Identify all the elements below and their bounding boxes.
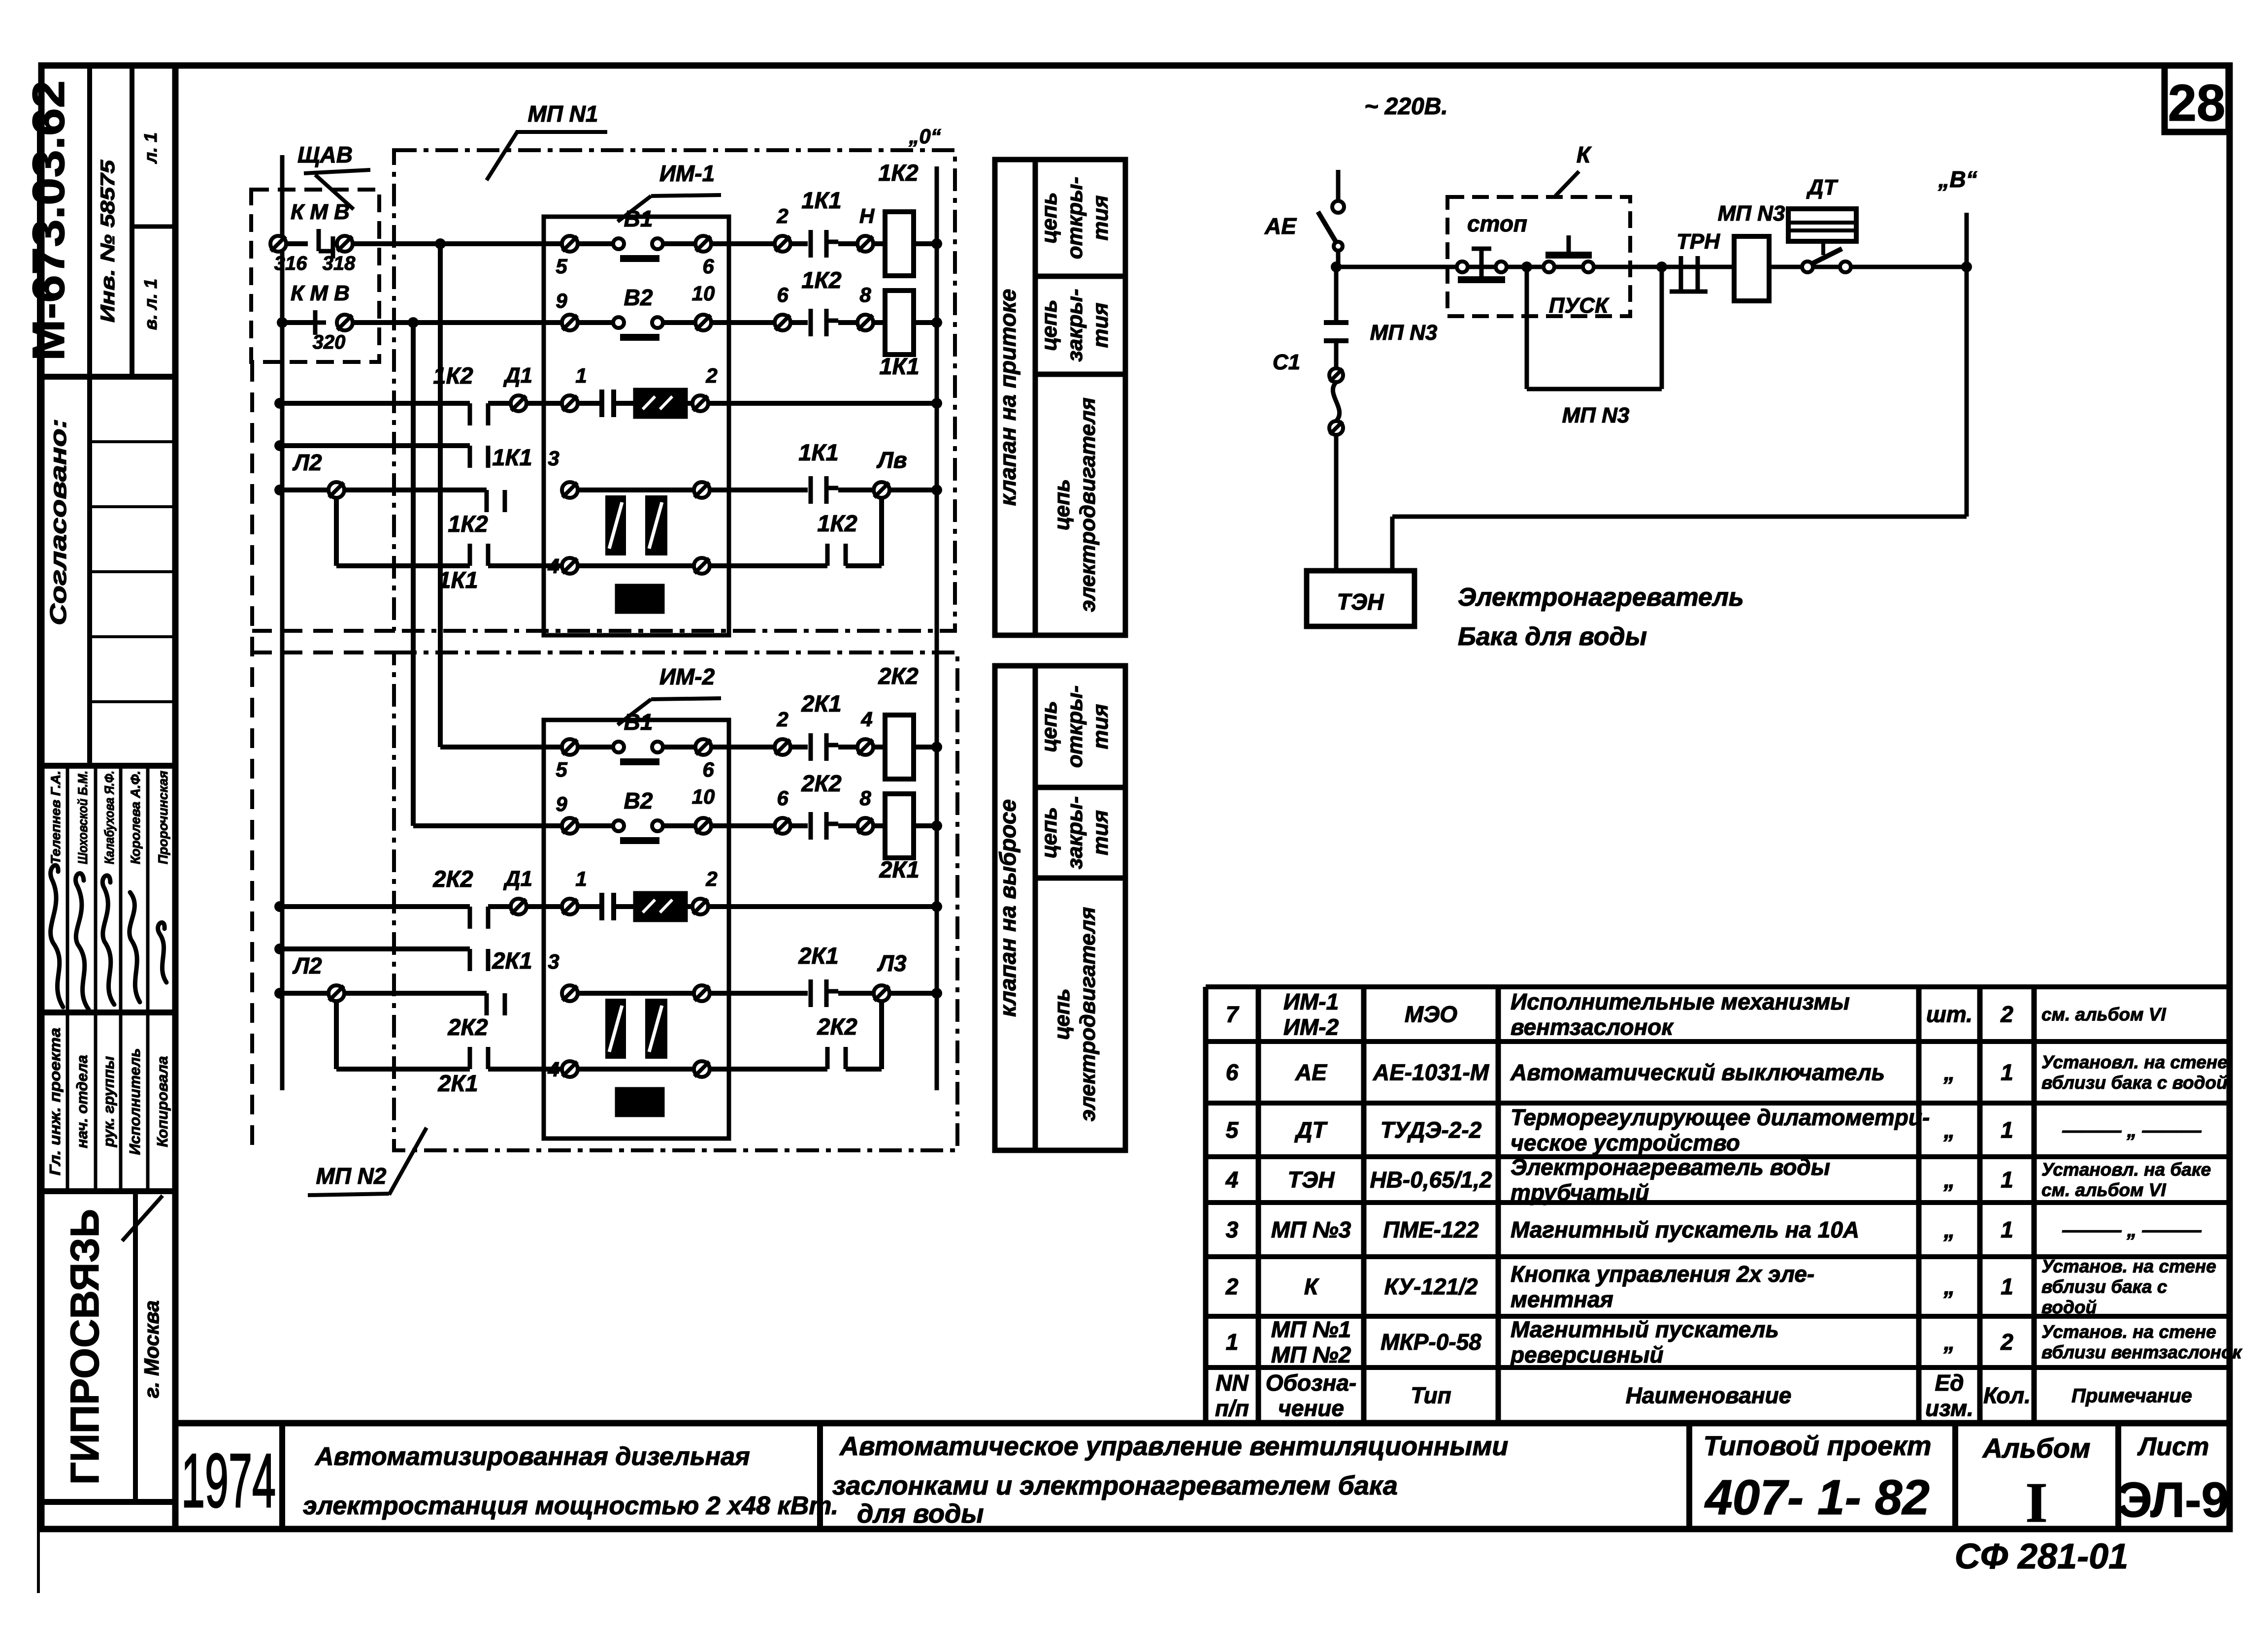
svg-text:6: 6 (702, 255, 714, 278)
svg-text:чение: чение (1278, 1395, 1344, 1421)
svg-text:„: „ (1943, 1274, 1955, 1300)
svg-text:4: 4 (547, 1058, 559, 1081)
svg-text:Установ. на стене: Установ. на стене (2041, 1256, 2216, 1276)
svg-text:МП N3: МП N3 (1370, 321, 1438, 345)
svg-text:1К1: 1К1 (879, 353, 919, 379)
svg-text:Копировала: Копировала (154, 1056, 171, 1147)
svg-text:Лист: Лист (2137, 1433, 2209, 1461)
svg-text:Пророчинская: Пророчинская (156, 771, 170, 864)
svg-text:М-673.03.62: М-673.03.62 (24, 80, 74, 361)
svg-text:МП №3: МП №3 (1271, 1217, 1351, 1242)
svg-text:цепь: цепь (1037, 299, 1061, 351)
svg-text:электродвигателя: электродвигателя (1076, 397, 1100, 612)
svg-text:тия: тия (1088, 302, 1113, 348)
svg-text:откры-: откры- (1063, 177, 1087, 259)
svg-text:10: 10 (692, 282, 715, 305)
svg-text:Альбом: Альбом (1982, 1433, 2091, 1464)
svg-text:Л3: Л3 (877, 950, 907, 976)
svg-text:трубчатый: трубчатый (1511, 1179, 1649, 1205)
svg-text:Ед: Ед (1935, 1370, 1964, 1396)
svg-text:Шоховской Б.М.: Шоховской Б.М. (75, 771, 90, 864)
svg-text:СФ 281-01: СФ 281-01 (1955, 1537, 2128, 1576)
svg-text:Д1: Д1 (503, 363, 532, 388)
svg-text:1К2: 1К2 (448, 511, 488, 537)
svg-text:2К1: 2К1 (798, 943, 838, 969)
svg-text:изм.: изм. (1925, 1395, 1973, 1421)
svg-text:1К1: 1К1 (798, 439, 838, 465)
svg-text:1К2: 1К2 (801, 267, 841, 293)
svg-text:——— „ ———: ——— „ ——— (2062, 1219, 2202, 1241)
svg-text:Установл. на баке: Установл. на баке (2041, 1160, 2211, 1180)
svg-text:2: 2 (705, 364, 717, 387)
svg-text:4: 4 (860, 708, 872, 731)
svg-text:К М В: К М В (291, 200, 350, 224)
svg-text:2К1: 2К1 (879, 856, 919, 882)
svg-text:Магнитный пускатель на 10А: Магнитный пускатель на 10А (1511, 1217, 1859, 1242)
svg-text:шт.: шт. (1926, 1002, 1972, 1027)
svg-text:5: 5 (556, 255, 567, 278)
svg-text:ЭЛ-9: ЭЛ-9 (2117, 1472, 2229, 1528)
svg-text:2К2: 2К2 (447, 1014, 488, 1040)
svg-text:6: 6 (777, 786, 789, 810)
svg-text:откры-: откры- (1063, 685, 1087, 768)
svg-text:электростанция мощностью 2 х4: электростанция мощностью 2 х48 кВт. (303, 1492, 838, 1520)
svg-text:1К2: 1К2 (878, 160, 918, 186)
svg-text:2: 2 (2000, 1002, 2013, 1027)
svg-text:В2: В2 (624, 285, 653, 310)
svg-text:Л2: Л2 (292, 450, 322, 475)
svg-text:407- 1- 82: 407- 1- 82 (1704, 1470, 1930, 1525)
svg-text:цепь: цепь (1050, 988, 1074, 1040)
svg-text:В1: В1 (624, 206, 653, 231)
svg-text:Калабухова Я.Ф.: Калабухова Я.Ф. (102, 771, 117, 864)
svg-text:4: 4 (547, 554, 559, 578)
svg-text:реверсивный: реверсивный (1510, 1342, 1664, 1368)
svg-text:ИМ-1: ИМ-1 (1283, 989, 1339, 1014)
svg-text:2: 2 (776, 708, 788, 731)
svg-text:——— „ ———: ——— „ ——— (2062, 1120, 2202, 1141)
svg-text:3: 3 (548, 950, 559, 973)
svg-text:Наименование: Наименование (1626, 1383, 1792, 1408)
svg-text:1: 1 (2001, 1117, 2013, 1143)
svg-text:Автоматический выключатель: Автоматический выключатель (1510, 1060, 1885, 1085)
svg-text:2К1: 2К1 (801, 690, 841, 716)
svg-text:8: 8 (859, 283, 871, 306)
svg-text:Кол.: Кол. (1983, 1383, 2031, 1408)
svg-text:2К2: 2К2 (817, 1013, 857, 1040)
svg-text:Гл. инж. проекта: Гл. инж. проекта (46, 1028, 64, 1175)
svg-text:1: 1 (575, 867, 587, 890)
svg-text:„: „ (1943, 1217, 1955, 1242)
svg-text:2: 2 (776, 204, 788, 228)
svg-text:вблизи бака с водой: вблизи бака с водой (2041, 1073, 2228, 1093)
svg-text:закры-: закры- (1063, 289, 1087, 361)
svg-text:ТЭН: ТЭН (1288, 1167, 1335, 1193)
svg-text:~ 220В.: ~ 220В. (1364, 94, 1447, 120)
svg-text:6: 6 (1226, 1060, 1239, 1085)
svg-text:Обозна-: Обозна- (1266, 1370, 1357, 1396)
svg-text:NN: NN (1216, 1370, 1249, 1396)
svg-text:АЕ: АЕ (1295, 1060, 1327, 1085)
svg-text:стоп: стоп (1467, 211, 1527, 236)
svg-text:К: К (1577, 142, 1592, 167)
svg-text:„: „ (1943, 1060, 1955, 1085)
svg-text:К: К (1304, 1274, 1319, 1300)
svg-text:МП N1: МП N1 (528, 101, 598, 127)
svg-text:водой: водой (2041, 1297, 2097, 1317)
svg-text:МКР-0-58: МКР-0-58 (1381, 1329, 1481, 1355)
svg-text:1: 1 (2001, 1060, 2013, 1085)
svg-text:МП N3: МП N3 (1562, 403, 1630, 427)
svg-text:Примечание: Примечание (2071, 1385, 2192, 1407)
svg-text:ДТ: ДТ (1294, 1117, 1328, 1143)
svg-text:ГИПРОСВЯЗЬ: ГИПРОСВЯЗЬ (63, 1209, 107, 1485)
svg-text:К М В: К М В (291, 281, 350, 305)
svg-text:нач. отдела: нач. отдела (73, 1055, 91, 1148)
svg-text:г. Москва: г. Москва (140, 1301, 163, 1399)
svg-text:„В“: „В“ (1938, 166, 1977, 192)
svg-text:28: 28 (2168, 74, 2226, 132)
svg-text:Королева А.Ф.: Королева А.Ф. (128, 771, 143, 864)
svg-text:Терморегулирующее дилатометри-: Терморегулирующее дилатометри- (1511, 1105, 1930, 1130)
svg-text:4: 4 (1225, 1167, 1239, 1193)
svg-text:9: 9 (556, 289, 567, 312)
svg-text:Бака для воды: Бака для воды (1458, 622, 1647, 651)
svg-text:3: 3 (548, 447, 559, 470)
svg-text:Лв: Лв (876, 447, 907, 473)
svg-text:ЩАВ: ЩАВ (297, 142, 353, 167)
svg-text:Н: Н (859, 204, 875, 228)
svg-text:Исполнительные механизмы: Исполнительные механизмы (1511, 989, 1850, 1014)
svg-text:Д1: Д1 (503, 867, 532, 891)
svg-text:8: 8 (859, 786, 871, 810)
svg-text:318: 318 (323, 253, 356, 274)
svg-text:ментная: ментная (1511, 1286, 1613, 1312)
svg-text:ТЭН: ТЭН (1337, 589, 1384, 615)
svg-text:Л2: Л2 (292, 953, 322, 978)
svg-text:тия: тия (1088, 810, 1113, 855)
svg-text:1К1: 1К1 (801, 187, 841, 213)
svg-text:вентзаслонок: вентзаслонок (1511, 1014, 1674, 1040)
svg-text:Электронагреватель: Электронагреватель (1458, 583, 1744, 612)
svg-text:МП N2: МП N2 (316, 1163, 387, 1189)
svg-text:1: 1 (1226, 1329, 1239, 1355)
svg-text:Инв. № 58575: Инв. № 58575 (97, 160, 119, 323)
svg-text:2: 2 (1225, 1274, 1239, 1300)
svg-text:316: 316 (274, 253, 307, 274)
svg-text:1К1: 1К1 (438, 567, 478, 593)
svg-text:Кнопка управления 2х эле-: Кнопка управления 2х эле- (1511, 1261, 1814, 1287)
svg-text:Автоматическое управление: Автоматическое управление вентиляционным… (839, 1432, 1508, 1461)
svg-text:ческое устройство: ческое устройство (1511, 1130, 1740, 1155)
svg-text:см. альбом VI: см. альбом VI (2041, 1180, 2166, 1200)
svg-text:1974: 1974 (181, 1438, 276, 1523)
svg-text:Установл. на стене: Установл. на стене (2041, 1052, 2228, 1073)
svg-text:В1: В1 (624, 709, 653, 735)
svg-text:НВ-0,65/1,2: НВ-0,65/1,2 (1370, 1167, 1492, 1193)
svg-text:вблизи вентзаслонок: вблизи вентзаслонок (2041, 1342, 2243, 1363)
svg-text:электродвигателя: электродвигателя (1076, 907, 1100, 1122)
svg-text:цепь: цепь (1050, 479, 1074, 530)
svg-text:МП N3: МП N3 (1718, 201, 1785, 226)
svg-text:2К1: 2К1 (437, 1070, 478, 1096)
svg-text:ПУСК: ПУСК (1549, 293, 1610, 318)
svg-text:2К1: 2К1 (492, 947, 532, 974)
svg-text:КУ-121/2: КУ-121/2 (1384, 1274, 1478, 1300)
svg-text:ИМ-2: ИМ-2 (1283, 1014, 1339, 1040)
svg-text:9: 9 (556, 792, 567, 815)
svg-text:2К2: 2К2 (432, 866, 473, 892)
svg-text:„: „ (1943, 1117, 1955, 1143)
svg-text:л. 1: л. 1 (140, 132, 161, 164)
svg-text:см. альбом VI: см. альбом VI (2041, 1004, 2166, 1024)
svg-text:1: 1 (575, 364, 587, 387)
svg-text:Согласовано:: Согласовано: (45, 419, 71, 625)
svg-text:тия: тия (1088, 704, 1113, 749)
svg-text:вблизи бака с: вблизи бака с (2041, 1276, 2168, 1297)
svg-text:Типовой проект: Типовой проект (1703, 1430, 1931, 1461)
svg-text:закры-: закры- (1063, 796, 1087, 869)
svg-text:1К2: 1К2 (817, 510, 857, 536)
svg-text:МП №2: МП №2 (1271, 1342, 1351, 1368)
svg-text:I: I (2026, 1471, 2048, 1534)
svg-text:Тип: Тип (1411, 1383, 1451, 1408)
svg-text:заслонками и электронагрев: заслонками и электронагревателем бака (832, 1471, 1398, 1500)
svg-text:10: 10 (692, 785, 715, 808)
svg-text:клапан на выбросе: клапан на выбросе (995, 799, 1020, 1017)
svg-text:Установ. на стене: Установ. на стене (2041, 1322, 2216, 1342)
svg-text:для воды: для воды (857, 1499, 984, 1529)
svg-text:7: 7 (1226, 1002, 1240, 1027)
svg-text:ТРН: ТРН (1676, 229, 1720, 254)
svg-text:МП №1: МП №1 (1271, 1316, 1351, 1342)
svg-text:ТУДЭ-2-2: ТУДЭ-2-2 (1381, 1117, 1482, 1143)
svg-text:3: 3 (1226, 1217, 1239, 1242)
svg-text:С1: С1 (1273, 350, 1300, 374)
svg-text:1: 1 (2001, 1274, 2013, 1300)
svg-text:В2: В2 (624, 788, 653, 814)
svg-text:2: 2 (2000, 1329, 2013, 1355)
svg-text:„0“: „0“ (908, 125, 941, 148)
svg-text:5: 5 (1226, 1117, 1239, 1143)
svg-text:Магнитный пускатель: Магнитный пускатель (1511, 1316, 1779, 1342)
svg-text:ПМЕ-122: ПМЕ-122 (1383, 1217, 1479, 1242)
svg-text:Исполнитель: Исполнитель (126, 1048, 143, 1155)
svg-text:6: 6 (702, 758, 714, 781)
svg-text:ИМ-2: ИМ-2 (659, 664, 715, 689)
svg-text:АЕ: АЕ (1264, 213, 1297, 239)
svg-text:ИМ-1: ИМ-1 (659, 161, 715, 186)
svg-text:1К1: 1К1 (492, 444, 532, 470)
svg-text:6: 6 (777, 283, 789, 306)
svg-text:„: „ (1943, 1329, 1955, 1355)
svg-text:320: 320 (313, 331, 346, 353)
svg-text:1: 1 (2001, 1167, 2013, 1193)
svg-text:2К2: 2К2 (878, 663, 918, 689)
svg-text:5: 5 (556, 758, 567, 781)
svg-text:тия: тия (1088, 195, 1113, 240)
svg-text:ДТ: ДТ (1806, 175, 1839, 199)
svg-text:АЕ-1031-М: АЕ-1031-М (1373, 1060, 1490, 1085)
svg-text:п/п: п/п (1215, 1395, 1249, 1421)
svg-text:Телепнев Г.А.: Телепнев Г.А. (48, 771, 63, 864)
svg-text:Электронагреватель воды: Электронагреватель воды (1511, 1154, 1830, 1180)
svg-text:в. л. 1: в. л. 1 (140, 279, 161, 330)
svg-text:МЭО: МЭО (1405, 1002, 1457, 1027)
svg-text:„: „ (1943, 1167, 1955, 1193)
svg-text:1: 1 (2001, 1217, 2013, 1242)
svg-text:2К2: 2К2 (801, 770, 841, 796)
svg-text:цепь: цепь (1037, 701, 1061, 752)
svg-text:Автоматизированная дизельная: Автоматизированная дизельная (314, 1442, 750, 1471)
svg-text:рук. группы: рук. группы (100, 1056, 117, 1148)
svg-text:клапан на притоке: клапан на притоке (995, 289, 1020, 506)
svg-text:цепь: цепь (1037, 807, 1061, 858)
svg-text:цепь: цепь (1037, 192, 1061, 243)
svg-text:2: 2 (705, 867, 717, 890)
